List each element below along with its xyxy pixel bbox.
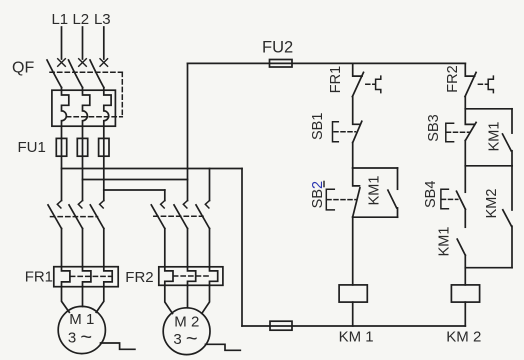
- svg-text:FR2: FR2: [125, 269, 153, 286]
- svg-text:3 ~: 3 ~: [68, 327, 92, 349]
- svg-text:L2: L2: [72, 11, 89, 28]
- svg-text:SB3: SB3: [426, 114, 442, 141]
- svg-text:KM1: KM1: [366, 176, 382, 206]
- svg-text:SB2: SB2: [310, 181, 326, 208]
- svg-text:L1: L1: [51, 11, 68, 28]
- svg-text:3 ~: 3 ~: [173, 328, 197, 350]
- svg-text:SB1: SB1: [310, 113, 326, 140]
- svg-text:KM2: KM2: [484, 189, 500, 219]
- svg-text:KM 2: KM 2: [446, 329, 481, 346]
- svg-text:QF: QF: [12, 60, 34, 77]
- svg-text:KM1: KM1: [437, 227, 453, 257]
- svg-text:SB4: SB4: [423, 181, 439, 208]
- svg-text:KM 1: KM 1: [339, 329, 374, 346]
- svg-text:FR1: FR1: [328, 66, 344, 93]
- svg-text:FU1: FU1: [18, 139, 46, 156]
- svg-text:FR1: FR1: [25, 268, 53, 285]
- svg-text:FR2: FR2: [445, 65, 461, 92]
- svg-text:KM1: KM1: [486, 122, 502, 152]
- svg-text:FU2: FU2: [262, 39, 293, 57]
- svg-text:M 1: M 1: [69, 311, 94, 328]
- svg-text:L3: L3: [94, 11, 111, 28]
